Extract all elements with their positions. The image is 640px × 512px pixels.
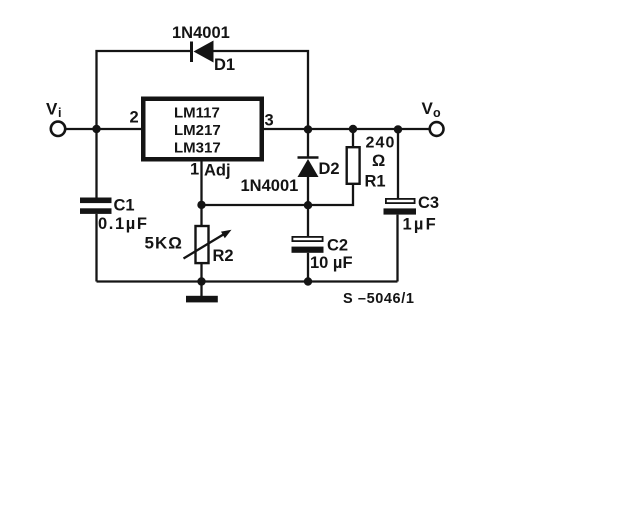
wire D2 branch upper (307, 129, 309, 157)
wire top rail right segment down to output node (213, 51, 308, 129)
wire C3 bottom to ground rail (396, 215, 398, 282)
svg-text:S –5046/1: S –5046/1 (343, 291, 415, 307)
svg-text:0.1µF: 0.1µF (98, 215, 149, 233)
svg-text:C2: C2 (327, 237, 348, 255)
wire C3 branch upper (397, 129, 399, 199)
output terminal Vo circle (430, 122, 444, 136)
capacitor C1 bottom plate (80, 208, 112, 214)
svg-text:R1: R1 (365, 173, 386, 191)
svg-text:5KΩ: 5KΩ (145, 234, 183, 253)
svg-text:1N4001: 1N4001 (172, 24, 230, 42)
svg-text:V: V (46, 100, 58, 119)
diode D1 cathode bar (190, 42, 193, 63)
svg-text:Ω: Ω (372, 152, 385, 170)
diode D2 cathode bar (298, 156, 319, 159)
diode D2 triangle (298, 159, 319, 177)
input terminal Vi circle (51, 122, 65, 136)
svg-text:LM217: LM217 (174, 122, 221, 139)
svg-text:1µF: 1µF (403, 216, 438, 234)
potentiometer R2 body (196, 226, 209, 263)
wire input to pin 2 (66, 128, 142, 130)
svg-text:C3: C3 (418, 194, 439, 212)
wire C1 bottom to ground rail (95, 214, 97, 282)
svg-text:C1: C1 (114, 197, 135, 215)
capacitor C2 top plate (292, 237, 322, 241)
ground stem (200, 282, 202, 297)
svg-text:o: o (433, 106, 441, 120)
svg-text:10 µF: 10 µF (310, 254, 353, 272)
node ground rail junction at R2 (197, 277, 205, 285)
node ground rail junction at C2 (304, 277, 312, 285)
wire bottom ground rail (97, 280, 398, 282)
wire top rail left segment with left vertical rail (97, 51, 191, 199)
capacitor C2 bottom plate (292, 247, 324, 253)
svg-text:1N4001: 1N4001 (241, 177, 299, 195)
capacitor C1 top plate (80, 198, 112, 204)
capacitor C3 top plate (386, 199, 415, 203)
node output rail junction at C3 (394, 125, 402, 133)
wire R2 bottom (200, 263, 202, 282)
node output rail junction at R1 (349, 125, 357, 133)
svg-text:LM117: LM117 (174, 105, 220, 122)
svg-text:3: 3 (265, 112, 274, 130)
node adjust junction at D2 bottom (304, 201, 312, 209)
wire C2 bottom (307, 253, 309, 282)
wire D2 branch lower (307, 176, 309, 205)
wire C2 branch upper (307, 205, 309, 237)
op-amp regulator U1 box LM117/LM217/LM317 (143, 99, 262, 160)
svg-text:D2: D2 (319, 160, 340, 178)
wire adjust rail from R2 top to R1 bottom (202, 185, 354, 205)
node adjust junction at R2 top (197, 201, 205, 209)
svg-text:1: 1 (190, 161, 199, 179)
svg-text:V: V (422, 99, 434, 118)
capacitor C3 bottom plate (384, 208, 417, 214)
node output rail junction at D2 (304, 125, 312, 133)
wire pin 3 to output terminal (264, 128, 431, 130)
diode D1 triangle (194, 41, 214, 63)
wire R1 branch upper (352, 129, 354, 147)
resistor R1 body (347, 147, 360, 184)
svg-text:Adj: Adj (204, 162, 231, 180)
svg-text:R2: R2 (213, 247, 234, 265)
potentiometer R2 arrowhead (221, 230, 232, 238)
svg-text:240: 240 (366, 135, 396, 152)
svg-text:D1: D1 (214, 56, 235, 74)
wire adjust pin down through junction to R2 (200, 162, 202, 227)
potentiometer R2 arrow (184, 234, 226, 259)
svg-text:i: i (58, 106, 61, 120)
ground bar (186, 296, 218, 303)
node input junction (92, 125, 100, 133)
svg-text:LM317: LM317 (174, 140, 221, 157)
svg-text:2: 2 (130, 109, 139, 127)
